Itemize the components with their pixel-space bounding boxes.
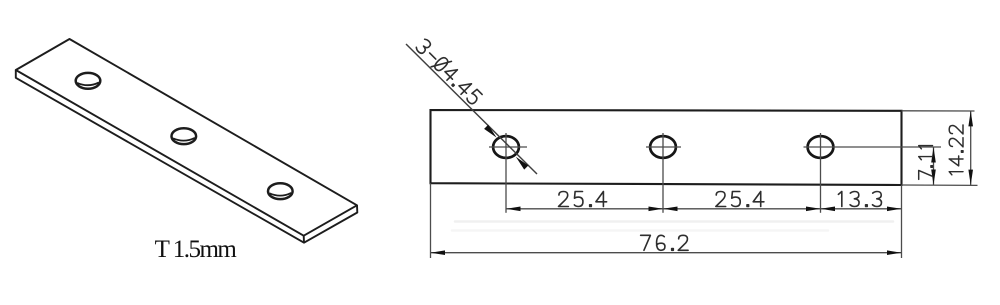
svg-text:T 1.5mm: T 1.5mm bbox=[155, 236, 238, 263]
dimension line 14.22 bbox=[970, 111, 972, 185]
faint scan artifact bands bbox=[452, 222, 893, 231]
leader text 3-dia4.45 bbox=[414, 37, 484, 107]
iso hole 3 bbox=[268, 183, 293, 199]
extension line left edge bbox=[430, 183, 432, 258]
dim text 7.11 bbox=[919, 146, 933, 180]
2D hole 1 bbox=[493, 136, 519, 158]
dimension line 76.2 bbox=[431, 252, 902, 254]
dim text 13.3 bbox=[838, 192, 881, 207]
iso plate thickness edges bbox=[16, 70, 358, 243]
2D hole 2 bbox=[650, 136, 676, 158]
dim text 14.22 bbox=[949, 125, 963, 175]
iso hole 2 bbox=[172, 128, 197, 144]
iso plate top face outline bbox=[16, 39, 357, 236]
dim arrows 76.2 bbox=[431, 250, 902, 255]
2D plate rectangle bbox=[431, 110, 902, 185]
dim arrows 7.11 bbox=[931, 147, 936, 185]
dimension line holes row bbox=[506, 208, 902, 210]
dimension line 7.11 bbox=[933, 147, 935, 185]
extension line bottom edge right bbox=[902, 184, 978, 186]
dim arrows 14.22 bbox=[968, 111, 973, 185]
dim text 76.2 bbox=[641, 235, 688, 250]
dim arrows row bbox=[506, 207, 902, 212]
2D hole 3 bbox=[808, 136, 834, 158]
leader arrows bbox=[484, 125, 528, 170]
extension line top edge right bbox=[902, 110, 975, 112]
extension line right edge bbox=[901, 185, 903, 258]
dim text 25.4 second bbox=[716, 192, 764, 207]
hole 2 centerlines bbox=[646, 133, 681, 213]
iso hole 1 bbox=[76, 73, 101, 89]
leader line 3-dia4.45 bbox=[406, 44, 537, 174]
dim text 25.4 first bbox=[559, 192, 607, 207]
hole 1 centerlines bbox=[489, 133, 527, 213]
hole 3 centerlines bbox=[804, 133, 942, 213]
